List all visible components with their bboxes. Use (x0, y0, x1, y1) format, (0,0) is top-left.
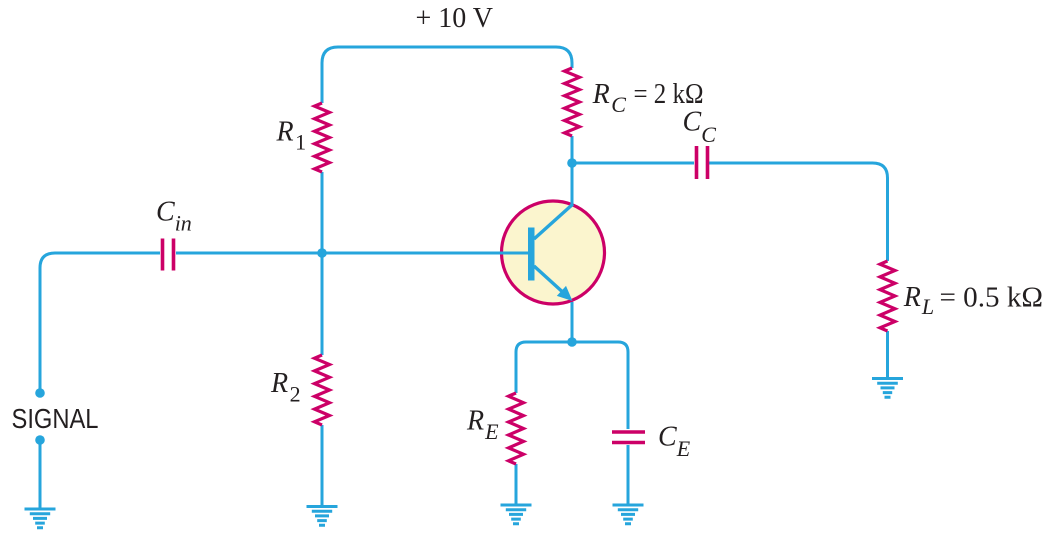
svg-text:CE: CE (658, 422, 691, 462)
svg-text:R1: R1 (276, 117, 307, 155)
svg-text:CC: CC (683, 107, 717, 148)
svg-text:= 2 kΩ: = 2 kΩ (634, 79, 704, 110)
svg-text:R2: R2 (270, 368, 301, 407)
svg-text:+ 10 V: + 10 V (416, 3, 494, 34)
svg-text:SIGNAL: SIGNAL (12, 403, 99, 434)
svg-text:Cin: Cin (156, 197, 192, 236)
svg-text:RL: RL (903, 282, 934, 319)
svg-text:= 0.5 kΩ: = 0.5 kΩ (940, 283, 1044, 314)
svg-text:RE: RE (466, 406, 499, 445)
svg-text:RC: RC (592, 79, 627, 117)
